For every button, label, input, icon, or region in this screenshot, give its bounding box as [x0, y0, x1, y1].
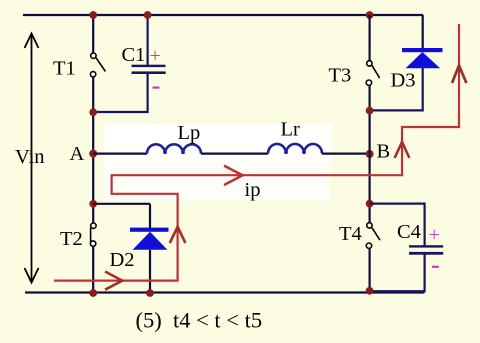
arrow: ip on A-B segment: [224, 166, 243, 185]
wire: C4 branch top: [370, 204, 425, 246]
switch T2 (closed): [90, 223, 96, 246]
wire: node A to Lp: [93, 153, 147, 155]
source arrow Vin (double-headed): [25, 34, 39, 283]
svg-text:+: +: [429, 224, 440, 246]
wire: C1 bottom elbow to left leg: [93, 74, 147, 112]
diode D2 (triangle): [133, 232, 168, 250]
svg-text:Vin: Vin: [15, 146, 45, 168]
svg-text:A: A: [70, 143, 85, 165]
junction dot: C1 / left leg: [89, 108, 97, 116]
junction dot: D3 / right leg: [366, 107, 374, 115]
junction dot: top bus / T1 leg: [89, 11, 97, 19]
svg-text:B: B: [377, 141, 391, 163]
diode D3 (cathode bar): [402, 48, 443, 52]
svg-text:D3: D3: [391, 70, 416, 92]
wire: D3 branch from top bus: [422, 15, 424, 49]
arrow: ip up beside node B: [395, 142, 410, 158]
switch T3 (open): [366, 61, 379, 86]
wire: D3 anode down and left to right leg: [370, 68, 423, 110]
label C4 minus: [432, 266, 439, 268]
wire: T1 to node A to D2-tap to T2: [92, 77, 94, 223]
capacitor C4: [409, 245, 443, 255]
wire: C4 branch bottom: [370, 255, 425, 292]
junction dot: left leg / bottom bus: [89, 289, 97, 297]
svg-text:(5) t4 < t < t5: (5) t4 < t < t5: [136, 308, 263, 333]
svg-text:T1: T1: [53, 58, 76, 80]
svg-text:C4: C4: [397, 221, 421, 243]
svg-text:Lp: Lp: [178, 122, 201, 144]
arrow: ip on bottom segment: [105, 272, 122, 290]
switch T1 (open): [90, 53, 105, 77]
junction dot: right leg / C4 top: [366, 200, 374, 208]
inductor Lp valley knots: [163, 150, 167, 154]
svg-text:ip: ip: [245, 179, 261, 201]
svg-text:T3: T3: [329, 65, 352, 87]
arrow: ip up on right side: [452, 66, 466, 84]
junction dot: top bus / T3 leg: [366, 11, 374, 19]
wire: D2 anode to bottom bus: [149, 250, 151, 293]
switch T4 (open): [366, 223, 380, 249]
diode D2 (cathode bar): [130, 228, 169, 232]
wire: right leg, bus to T3: [369, 15, 371, 61]
inductor Lr: [268, 144, 322, 154]
wire: Lp to Lr: [201, 153, 268, 155]
node B junction dot: [366, 150, 374, 158]
node A junction dot: [89, 150, 97, 158]
junction dot: right leg / bottom bus: [366, 287, 374, 295]
capacitor C1: [132, 65, 166, 74]
svg-text:C1: C1: [122, 44, 146, 66]
junction dot: top bus / C1: [144, 11, 152, 19]
wire: C1 branch from top bus: [147, 15, 149, 65]
inductor Lr valley knots: [284, 150, 288, 154]
diode D3 (triangle): [406, 52, 441, 68]
arrow: ip up beside D2: [170, 227, 186, 243]
wire: T4 to bottom bus: [369, 248, 371, 292]
wire: D2 top tap: [93, 203, 150, 205]
label C1 minus: [153, 86, 160, 88]
wire: T3 to D3-tap to node B to T4: [369, 85, 371, 222]
svg-text:T4: T4: [339, 223, 362, 245]
wire: Lr to node B: [322, 153, 370, 155]
wire: T2 to bottom bus: [92, 246, 94, 292]
svg-text:D2: D2: [110, 249, 135, 271]
inductor Lp: [147, 144, 201, 153]
junction dot: left leg / D2 top: [89, 200, 97, 208]
wire: D2 cathode stub: [149, 204, 151, 228]
wire: red current path ip: [54, 24, 459, 281]
wire: bottom DC bus: [25, 291, 425, 293]
svg-text:Lr: Lr: [281, 119, 301, 141]
svg-text:T2: T2: [60, 228, 83, 250]
wire: left leg, bus to T1: [92, 15, 94, 53]
junction dot: D2 / bottom bus: [146, 289, 154, 297]
svg-text:+: +: [150, 45, 161, 67]
wire: top DC bus: [23, 14, 423, 16]
